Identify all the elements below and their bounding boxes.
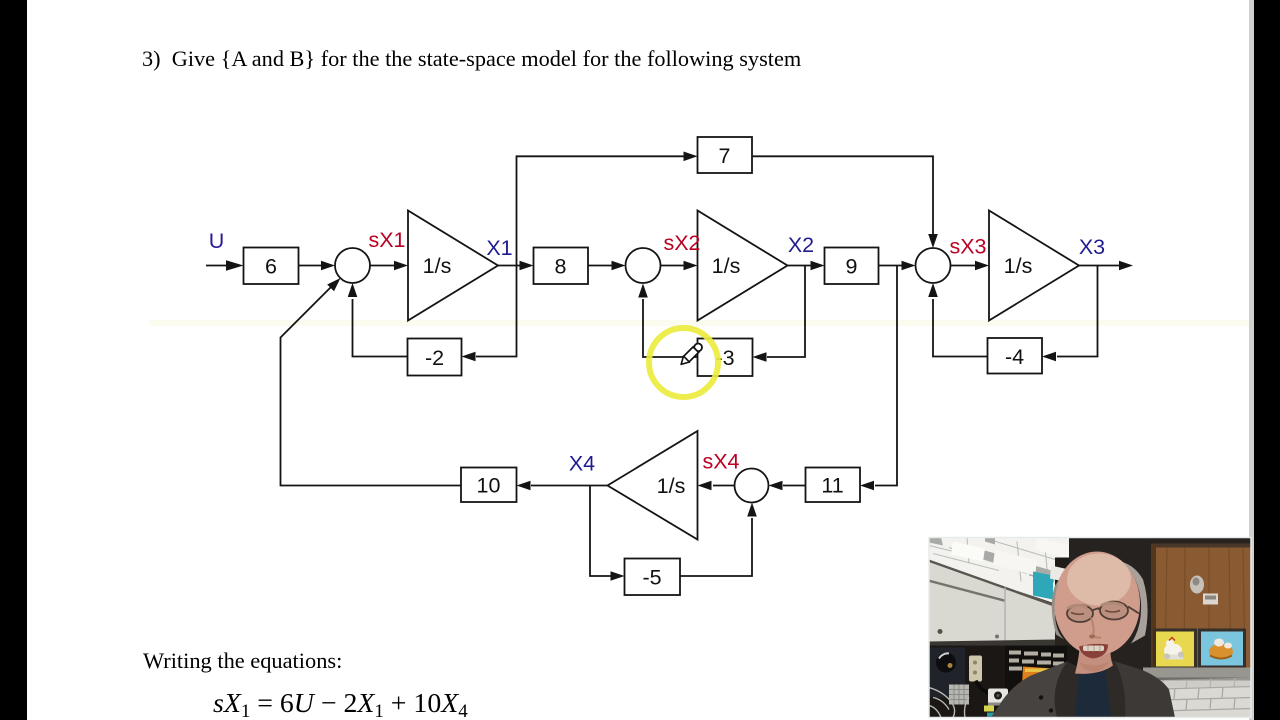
arrowhead into box -2: [462, 352, 476, 362]
summing junction S1: [335, 248, 370, 283]
webcam outlet plate: [969, 656, 982, 682]
webcam man neck: [1075, 638, 1113, 674]
svg-text:6: 6: [265, 255, 277, 279]
webcam man shirt: [1075, 666, 1111, 718]
right letterbox bar: [1254, 0, 1280, 720]
svg-text:-4: -4: [1005, 345, 1024, 369]
arrowhead into sum4 bottom: [747, 503, 757, 517]
faint highlighter band: [150, 320, 1249, 327]
webcam shelf under pictures: [1143, 668, 1251, 680]
arrowhead into sum3 bottom: [928, 283, 938, 297]
wire int4 to box10 (node X4): [531, 485, 608, 487]
arrowhead into box9: [811, 261, 825, 271]
webcam teal box: [1033, 572, 1053, 600]
integrator triangle INT4: [608, 431, 698, 540]
arrowhead into box -4: [1042, 352, 1056, 362]
wire box -2 to sum1 bottom: [353, 299, 408, 357]
webcam wooden door: [1151, 544, 1251, 672]
arrowhead into box -3: [753, 352, 767, 362]
svg-text:sX4: sX4: [702, 450, 739, 474]
gain box -2: [408, 339, 462, 376]
svg-text:1/s: 1/s: [423, 254, 452, 278]
gain box 7: [698, 137, 753, 173]
arrowhead into sum1: [321, 261, 335, 271]
summing junction S4: [735, 469, 769, 503]
gain box 11: [806, 468, 861, 503]
webcam man hair left: [1052, 580, 1064, 640]
wire node X4 down to box -5: [590, 486, 614, 577]
svg-text:U: U: [209, 229, 225, 253]
webcam man nose: [1091, 618, 1101, 638]
svg-text:X4: X4: [569, 452, 595, 476]
arrowhead into int4: [698, 481, 712, 491]
wire box10 long feedback to sum1: [281, 283, 462, 486]
integrator triangle INT1: [408, 211, 498, 321]
arrowhead into box -5: [611, 571, 625, 581]
webcam desk clutter bottom-left: [929, 646, 1079, 718]
arrowhead into int2: [684, 261, 698, 271]
wire sum2 to int2: [661, 265, 687, 267]
gain box -3: [698, 339, 753, 377]
highlight circle (yellow annotation halo): [649, 328, 718, 397]
wire box8 to sum2: [588, 265, 614, 267]
wire node X3 down to box -4: [1057, 266, 1098, 357]
svg-text:sX1: sX1: [368, 228, 405, 252]
webcam man mouth open with teeth: [1079, 644, 1108, 659]
webcam loose wires: [929, 688, 969, 718]
webcam room base: [929, 538, 1251, 718]
svg-text:sX1 = 6U − 2X1 + 10X4: sX1 = 6U − 2X1 + 10X4: [213, 688, 468, 720]
arrowhead into sum3 left: [902, 261, 916, 271]
webcam wire basket: [949, 685, 969, 705]
arrowhead into int1: [394, 261, 408, 271]
svg-text:sX2: sX2: [663, 231, 700, 255]
webcam small white box right of teal: [1050, 566, 1069, 583]
webcam man glasses lens tint: [1067, 605, 1093, 622]
svg-text:X3: X3: [1079, 235, 1105, 259]
gain box 8: [534, 248, 589, 285]
webcam man glasses: [1067, 602, 1139, 623]
gain box 6: [244, 248, 299, 285]
wire node sX3 down to box11: [875, 266, 897, 486]
webcam blue framed cartoon: [1198, 629, 1246, 669]
right page-edge gray line: [1249, 0, 1254, 720]
wire int1 to box8 (node X1): [498, 265, 522, 267]
webcam door hardware: [1190, 576, 1204, 594]
arrowhead output X3: [1119, 261, 1133, 271]
left letterbox bar: [0, 0, 27, 720]
arrowhead into sum2: [612, 261, 626, 271]
webcam left cabinet: [929, 560, 1055, 644]
webcam yellow framed cartoon: [1153, 629, 1197, 670]
svg-text:10: 10: [477, 474, 501, 498]
webcam tile wall bottom-right: [1143, 681, 1251, 718]
wire input U: [206, 265, 228, 267]
arrowhead into box10: [517, 481, 531, 491]
arrowhead into box11: [860, 481, 874, 491]
webcam man forehead highlight: [1067, 554, 1131, 606]
svg-text:X2: X2: [788, 233, 814, 257]
wire sum4 to int4: [713, 485, 735, 487]
svg-text:8: 8: [555, 255, 567, 279]
webcam man jacket shoulders: [991, 662, 1079, 718]
wire sum3 to int3: [951, 265, 979, 267]
webcam man hair right: [1121, 562, 1148, 644]
wire int3 output X3: [1079, 265, 1121, 267]
webcam man eyes: [1071, 613, 1084, 615]
arrowhead into box7: [684, 152, 698, 162]
gain box 10: [461, 468, 517, 503]
arrowhead into sum2 bottom: [638, 284, 648, 298]
pencil cursor: [678, 342, 704, 368]
wire box7 to sum3 top: [752, 156, 933, 236]
svg-text:9: 9: [846, 255, 858, 279]
svg-text:-5: -5: [642, 566, 661, 590]
gain box -5: [625, 559, 681, 596]
wire int2 to box9 (node X2): [788, 265, 814, 267]
arrowhead diagonal into sum1 lower-left: [327, 278, 340, 291]
arrowhead into box8: [520, 261, 534, 271]
webcam overlay: [929, 538, 1251, 718]
integrator triangle INT2: [698, 211, 788, 321]
wire node X1 down to box -2: [476, 266, 517, 357]
gain box 9: [825, 248, 879, 285]
svg-text:Writing the equations:: Writing the equations:: [143, 648, 342, 673]
svg-text:1/s: 1/s: [712, 254, 741, 278]
webcam dark doorway behind head: [1069, 538, 1161, 678]
webcam orange snack box: [1022, 667, 1069, 688]
arrowhead into sum1 bottom: [348, 283, 358, 297]
webcam lamp cord: [976, 681, 996, 695]
svg-text:sX3: sX3: [949, 235, 986, 259]
wire box9 to sum3 (node sX3 branch): [879, 265, 905, 267]
summing junction S2: [626, 248, 661, 283]
webcam man head: [1054, 552, 1140, 656]
gain box -4: [988, 338, 1043, 374]
arrowhead into sum3 top: [928, 234, 938, 248]
svg-text:X1: X1: [486, 236, 512, 260]
webcam white camera device: [988, 689, 1008, 705]
webcam sticky notes: [984, 706, 994, 712]
svg-text:1/s: 1/s: [1004, 254, 1033, 278]
webcam white box stacks upper-left: [929, 538, 1079, 604]
arrowhead into sum4 right: [769, 481, 783, 491]
webcam man chin shading: [1079, 662, 1109, 672]
svg-text:7: 7: [719, 144, 731, 168]
wire box -3 to sum2 bottom: [643, 299, 698, 357]
wire sum1 to int1: [370, 265, 397, 267]
wire box -4 to sum3 bottom: [933, 299, 988, 357]
webcam cabinet underside shadow: [929, 640, 1055, 651]
arrowhead into box6: [226, 260, 244, 271]
webcam dark speaker top-middle: [1055, 558, 1091, 602]
wire node X2 down to box -3: [767, 266, 805, 358]
svg-text:1/s: 1/s: [657, 474, 686, 498]
wire box -5 to sum4 bottom: [680, 518, 752, 576]
wire box11 to sum4: [783, 485, 806, 487]
arrowhead into int3: [975, 261, 989, 271]
wire node X1 up to box7: [517, 156, 687, 265]
summing junction S3: [916, 248, 951, 283]
svg-text:11: 11: [821, 474, 843, 498]
integrator triangle INT3: [989, 211, 1079, 321]
svg-text:3) Give {A and B} for the the: 3) Give {A and B} for the the state-spac…: [142, 46, 801, 71]
svg-text:-2: -2: [425, 346, 444, 370]
wire box6 to sum1: [299, 265, 325, 267]
